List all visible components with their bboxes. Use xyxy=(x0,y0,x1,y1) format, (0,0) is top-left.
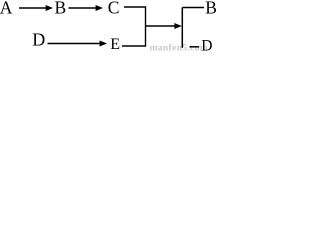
arrowhead at bracket xyxy=(174,23,181,29)
svg-text:D: D xyxy=(201,37,212,52)
svg-text:B: B xyxy=(205,0,217,18)
svg-text:C: C xyxy=(108,0,120,18)
merge arrow to bracket xyxy=(146,25,176,27)
bracket bottom branch xyxy=(190,46,200,48)
svg-text:A: A xyxy=(0,0,13,18)
bracket vertical xyxy=(181,8,183,48)
arrowhead into E xyxy=(100,41,107,47)
wire B to C xyxy=(69,7,97,9)
wire E to junction corner xyxy=(122,26,146,46)
svg-text:B: B xyxy=(55,0,67,18)
arrowhead into C xyxy=(96,5,103,11)
wire D to E xyxy=(48,43,101,45)
bracket top branch xyxy=(182,7,204,9)
wire C to junction corner xyxy=(124,7,146,26)
arrowhead into B xyxy=(46,5,53,11)
svg-text:D: D xyxy=(32,30,45,50)
wire A to B xyxy=(19,7,47,9)
svg-text:manfen5.com: manfen5.com xyxy=(150,43,208,52)
svg-text:E: E xyxy=(110,36,120,52)
